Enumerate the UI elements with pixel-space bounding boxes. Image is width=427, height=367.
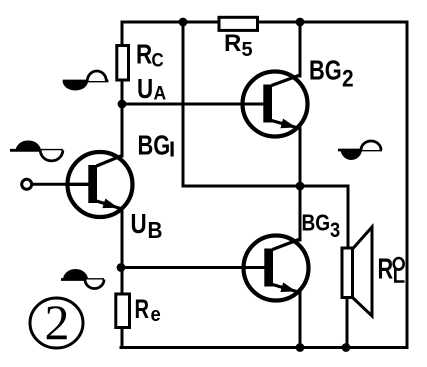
wire bottom rail [121, 346, 407, 349]
wire BG2 collector to top rail [299, 22, 302, 76]
svg-text:BG: BG [138, 130, 171, 161]
svg-text:R: R [378, 254, 394, 286]
node UA [118, 74, 167, 109]
wire speaker bottom lead [346, 298, 349, 348]
svg-text:R: R [224, 30, 241, 57]
resistor Re [116, 294, 161, 328]
figure number 2 circled [30, 294, 83, 350]
svg-text:BG: BG [309, 55, 342, 86]
wire UA node to BG2 base [122, 103, 268, 106]
svg-text:C: C [152, 49, 164, 70]
wire top node down at x=183 [182, 22, 185, 186]
svg-text:R: R [135, 294, 150, 323]
svg-text:A: A [154, 82, 167, 104]
node at top rail x=183 [179, 18, 188, 27]
resistor RC [117, 39, 164, 80]
svg-text:U: U [137, 74, 153, 105]
svg-text:2: 2 [45, 294, 70, 350]
waveform icon at UA (negative half filled) [63, 71, 109, 91]
wire speaker top lead [347, 186, 350, 248]
wire BG3 emitter to bottom rail [299, 292, 302, 348]
svg-text:e: e [151, 304, 162, 326]
svg-text:3: 3 [330, 219, 340, 242]
wire BG2 emitter to mid node [299, 128, 302, 186]
waveform icon output (negative half filled) [338, 141, 382, 160]
waveform icon input (positive half filled) [10, 140, 63, 160]
node bottom rail speaker [342, 343, 351, 352]
wire right rail [406, 22, 409, 348]
svg-text:U: U [131, 209, 147, 240]
transistor BG3 [244, 211, 341, 301]
node at top rail x=300 [296, 18, 305, 27]
transistor BG1 [68, 130, 174, 217]
waveform icon at UB (positive half filled) [61, 269, 104, 289]
node bottom rail BG3 emitter [296, 343, 305, 352]
wire BG3 collector to mid node [299, 186, 302, 240]
svg-text:5: 5 [242, 39, 253, 61]
resistor R5 [219, 17, 258, 61]
wire left rail upper (RC branch) [121, 22, 124, 156]
speaker RL [342, 227, 405, 316]
wire mid horizontal to speaker [183, 185, 348, 188]
wire UB node to BG3 base [121, 266, 269, 269]
svg-text:2: 2 [342, 65, 354, 92]
wire top rail [122, 21, 407, 24]
wire left rail lower (emitter to Re branch) [121, 209, 124, 348]
node mid junction [296, 182, 305, 191]
svg-text:B: B [148, 217, 163, 243]
node UB [117, 209, 163, 272]
input terminal [22, 179, 68, 189]
transistor BG2 [243, 55, 354, 137]
svg-text:R: R [136, 39, 152, 70]
svg-text:BG: BG [302, 211, 331, 236]
